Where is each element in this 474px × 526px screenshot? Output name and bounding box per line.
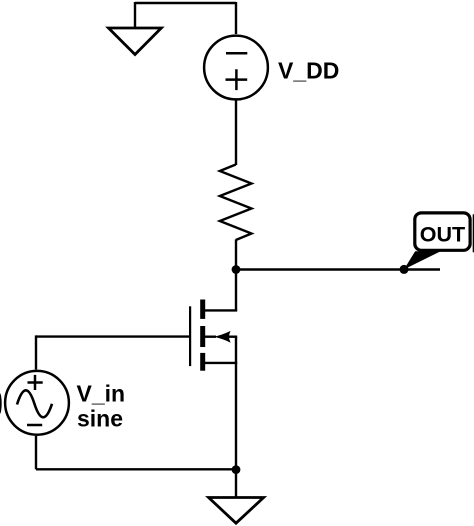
voltage source V_in (sine) xyxy=(5,371,69,435)
body arrow xyxy=(214,331,231,343)
wire vertical down to V_DD top xyxy=(235,2,237,34)
wire drain horizontal to transistor xyxy=(205,309,237,311)
wire top horizontal from ground to V_DD branch xyxy=(135,2,236,4)
voltage source V_DD xyxy=(204,36,268,100)
clipped mark at left edge xyxy=(0,393,2,414)
source contact bar xyxy=(200,353,205,371)
wire source/body vertical down xyxy=(235,337,237,470)
wire down to bottom ground xyxy=(235,469,237,497)
wire body stub from middle bar xyxy=(205,336,216,338)
svg-text:OUT: OUT xyxy=(420,223,465,247)
wire vertical down to top ground xyxy=(134,2,136,28)
drain contact bar xyxy=(200,300,205,319)
node OUT terminal dot xyxy=(400,265,409,274)
wire V_in bottom vertical xyxy=(35,436,37,469)
wire bottom horizontal xyxy=(36,468,236,470)
svg-text:V_DD: V_DD xyxy=(278,57,339,83)
plus mark xyxy=(28,375,43,390)
wire V_in top vertical xyxy=(35,335,37,369)
body contact bar xyxy=(200,326,205,347)
flag pointer to OUT xyxy=(404,251,441,269)
svg-text:sine: sine xyxy=(77,406,123,432)
node output junction dot xyxy=(232,265,241,274)
wire gate horizontal xyxy=(36,335,189,337)
svg-text:V_in: V_in xyxy=(77,381,126,407)
minus mark xyxy=(27,424,42,427)
wire source horizontal xyxy=(205,362,237,364)
wire output horizontal xyxy=(236,268,440,270)
wire resistor bottom to output node xyxy=(235,240,237,270)
flag box OUT xyxy=(415,213,470,250)
wire body to source xyxy=(228,336,237,338)
wire drain vertical from output node xyxy=(235,270,237,311)
ground (top) xyxy=(109,28,162,55)
gate plate line xyxy=(189,306,191,366)
node bottom junction dot xyxy=(232,465,241,474)
wire V_DD bottom to resistor xyxy=(235,100,237,166)
resistor R1 xyxy=(220,165,252,241)
edge sliver of cropped neighbour flag xyxy=(473,214,474,252)
transistor M1 (NMOS) xyxy=(189,300,237,371)
sine wave xyxy=(17,390,52,417)
ground (bottom) xyxy=(209,498,264,524)
